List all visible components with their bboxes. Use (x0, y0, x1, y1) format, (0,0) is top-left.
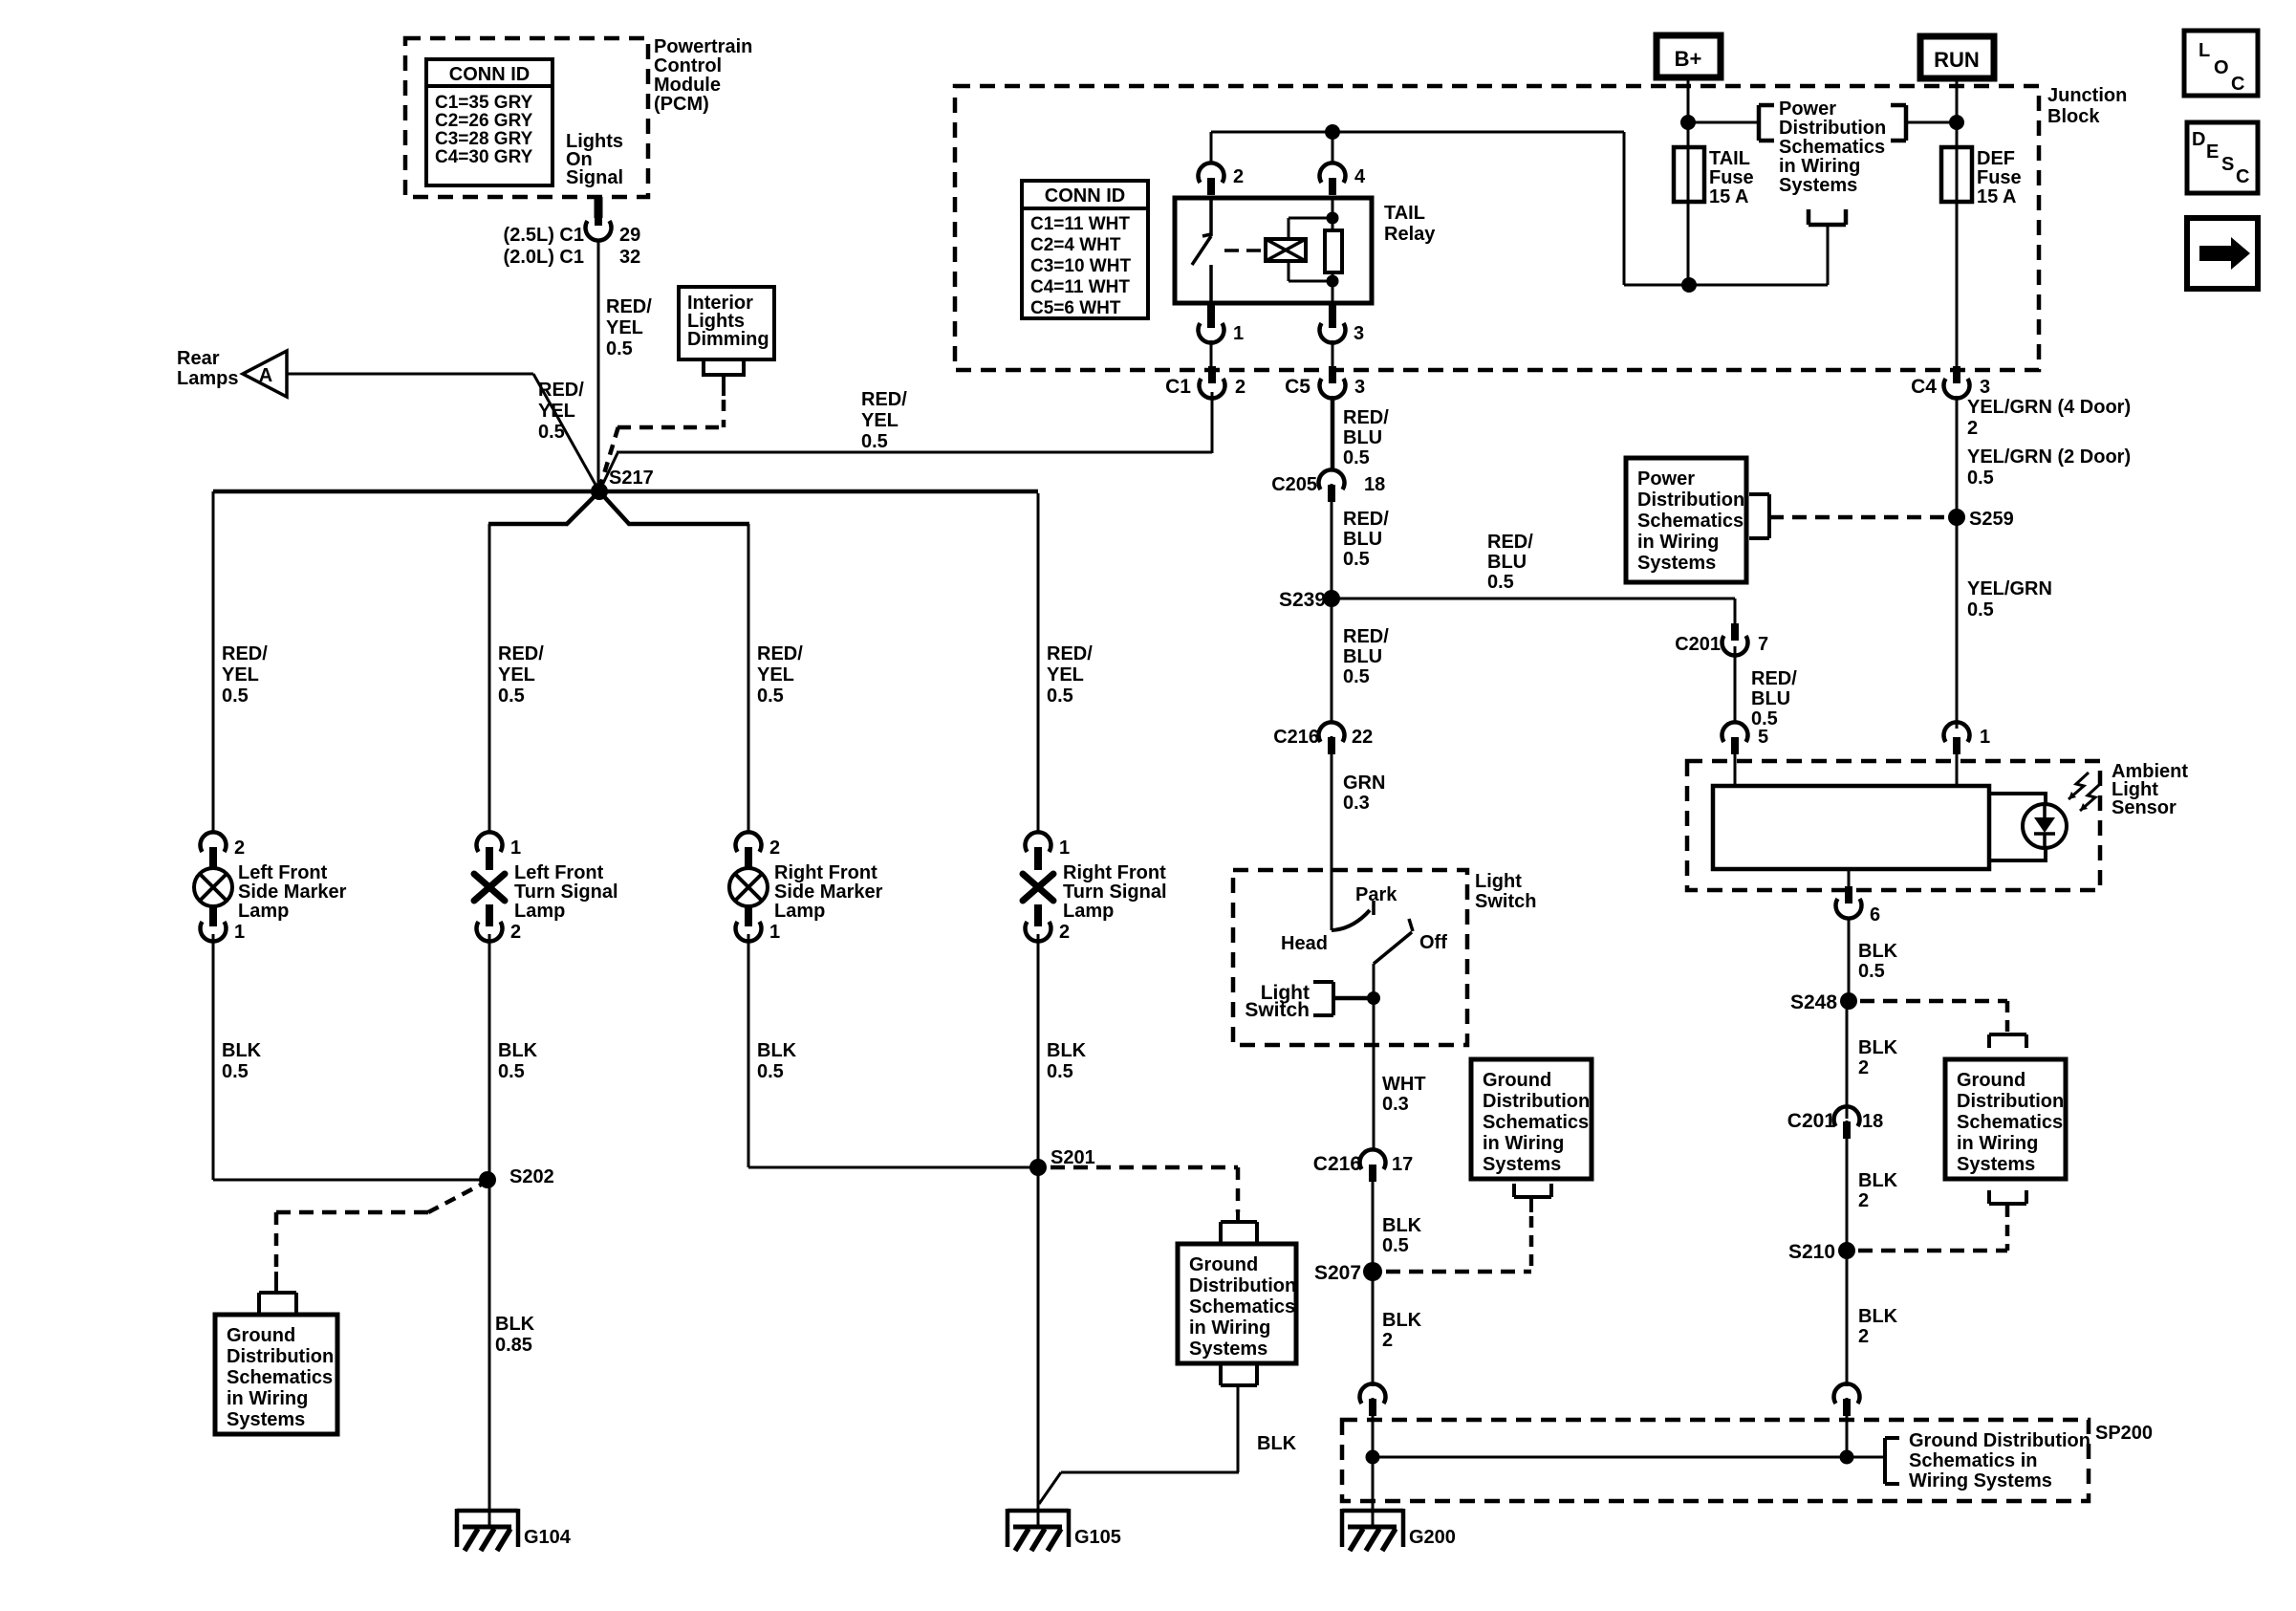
svg-text:3: 3 (1354, 377, 1365, 398)
svg-text:GRN: GRN (1343, 773, 1385, 794)
svg-text:B+: B+ (1675, 47, 1702, 71)
svg-text:0.5: 0.5 (1343, 447, 1370, 468)
svg-text:Signal: Signal (566, 167, 623, 188)
svg-text:BLK: BLK (1858, 1306, 1898, 1327)
svg-text:S202: S202 (509, 1166, 554, 1187)
svg-text:RED/: RED/ (606, 296, 652, 317)
svg-text:BLK: BLK (498, 1040, 538, 1061)
svg-text:TAIL: TAIL (1384, 203, 1425, 224)
svg-text:Control: Control (654, 55, 722, 76)
svg-text:Powertrain: Powertrain (654, 36, 752, 57)
svg-text:DEF: DEF (1977, 148, 2015, 169)
svg-text:2: 2 (510, 922, 521, 943)
svg-text:RED/: RED/ (757, 643, 803, 664)
svg-text:RED/: RED/ (1047, 643, 1093, 664)
svg-text:RED/: RED/ (1487, 532, 1533, 553)
svg-text:6: 6 (1870, 904, 1880, 925)
svg-text:Systems: Systems (1483, 1154, 1561, 1175)
svg-text:0.5: 0.5 (757, 1061, 784, 1082)
svg-text:3: 3 (1980, 377, 1990, 398)
svg-text:BLU: BLU (1343, 427, 1382, 448)
svg-text:2: 2 (1967, 418, 1978, 439)
svg-text:C4=30 GRY: C4=30 GRY (435, 147, 533, 167)
svg-text:0.5: 0.5 (538, 422, 565, 443)
svg-text:Ground: Ground (1483, 1070, 1551, 1091)
svg-text:RED/: RED/ (861, 389, 907, 410)
svg-text:22: 22 (1352, 727, 1373, 748)
svg-text:15 A: 15 A (1977, 186, 2017, 207)
svg-text:5: 5 (1758, 727, 1768, 748)
svg-text:2: 2 (769, 838, 780, 859)
svg-text:Block: Block (2047, 106, 2100, 127)
svg-text:SP200: SP200 (2095, 1423, 2153, 1444)
svg-text:0.5: 0.5 (498, 686, 525, 707)
svg-text:0.5: 0.5 (1967, 599, 1994, 620)
svg-text:BLK: BLK (222, 1040, 262, 1061)
svg-text:C2=26 GRY: C2=26 GRY (435, 111, 533, 131)
svg-text:0.5: 0.5 (1047, 686, 1073, 707)
svg-text:RED/: RED/ (1751, 668, 1797, 689)
svg-text:BLU: BLU (1751, 688, 1790, 709)
svg-text:in Wiring: in Wiring (1957, 1133, 2038, 1154)
svg-text:Schematics: Schematics (1779, 137, 1885, 158)
svg-text:YEL: YEL (606, 317, 643, 338)
svg-text:RED/: RED/ (498, 643, 544, 664)
svg-text:Turn Signal: Turn Signal (1063, 882, 1167, 903)
svg-text:YEL/GRN: YEL/GRN (1967, 578, 2052, 599)
svg-text:32: 32 (619, 247, 640, 268)
svg-text:Sensor: Sensor (2112, 797, 2177, 818)
svg-text:G200: G200 (1409, 1527, 1456, 1548)
svg-text:CONN ID: CONN ID (449, 64, 530, 85)
svg-text:S201: S201 (1051, 1147, 1095, 1168)
svg-text:0.5: 0.5 (498, 1061, 525, 1082)
svg-text:C4=11 WHT: C4=11 WHT (1030, 277, 1130, 297)
svg-text:2: 2 (1858, 1326, 1869, 1347)
svg-text:Systems: Systems (1957, 1154, 2035, 1175)
svg-text:Relay: Relay (1384, 224, 1436, 245)
svg-text:Left Front: Left Front (238, 862, 328, 883)
svg-text:0.3: 0.3 (1382, 1094, 1409, 1115)
svg-text:1: 1 (1233, 323, 1244, 344)
svg-text:Systems: Systems (1779, 175, 1857, 196)
svg-text:29: 29 (619, 225, 640, 246)
svg-text:Distribution: Distribution (227, 1346, 334, 1367)
svg-text:in Wiring: in Wiring (1637, 532, 1719, 553)
svg-text:Systems: Systems (227, 1409, 305, 1430)
svg-text:Turn Signal: Turn Signal (514, 882, 618, 903)
svg-text:C2=4 WHT: C2=4 WHT (1030, 235, 1121, 255)
svg-text:YEL/GRN (4 Door): YEL/GRN (4 Door) (1967, 397, 2131, 418)
svg-text:Rear: Rear (177, 348, 220, 369)
svg-text:Distribution: Distribution (1779, 118, 1886, 139)
svg-text:1: 1 (769, 922, 780, 943)
svg-text:Schematics: Schematics (1189, 1296, 1295, 1317)
svg-text:2: 2 (1858, 1057, 1869, 1078)
svg-text:C205: C205 (1271, 474, 1317, 495)
svg-text:Light: Light (1475, 871, 1522, 892)
svg-text:0.5: 0.5 (1382, 1235, 1409, 1256)
svg-text:in Wiring: in Wiring (227, 1388, 308, 1409)
svg-text:0.5: 0.5 (1343, 666, 1370, 687)
svg-text:18: 18 (1364, 474, 1385, 495)
svg-text:1: 1 (234, 922, 245, 943)
svg-text:YEL: YEL (1047, 664, 1084, 686)
svg-text:in Wiring: in Wiring (1483, 1133, 1564, 1154)
svg-text:Head: Head (1281, 933, 1328, 954)
svg-text:CONN ID: CONN ID (1045, 185, 1125, 207)
svg-text:2: 2 (1382, 1330, 1393, 1351)
svg-text:A: A (259, 365, 272, 386)
svg-text:Power: Power (1779, 98, 1836, 120)
svg-text:0.5: 0.5 (1487, 572, 1514, 593)
svg-text:C3=28 GRY: C3=28 GRY (435, 129, 533, 149)
svg-text:Fuse: Fuse (1709, 167, 1754, 188)
svg-text:BLU: BLU (1343, 646, 1382, 667)
svg-text:Switch: Switch (1245, 999, 1310, 1021)
svg-text:C: C (2236, 166, 2249, 187)
svg-text:C3=10 WHT: C3=10 WHT (1030, 256, 1131, 276)
svg-text:1: 1 (1059, 838, 1070, 859)
svg-text:0.5: 0.5 (1858, 961, 1885, 982)
svg-text:Schematics in: Schematics in (1909, 1450, 2038, 1471)
svg-text:Ground: Ground (1189, 1254, 1258, 1275)
svg-text:C1=35 GRY: C1=35 GRY (435, 93, 533, 113)
svg-text:0.5: 0.5 (1343, 549, 1370, 570)
svg-text:in Wiring: in Wiring (1189, 1317, 1270, 1339)
svg-text:C201: C201 (1787, 1110, 1836, 1132)
svg-text:S207: S207 (1314, 1262, 1361, 1284)
svg-text:(2.5L) C1: (2.5L) C1 (504, 225, 584, 246)
svg-text:RED/: RED/ (1343, 407, 1389, 428)
svg-text:S217: S217 (609, 468, 654, 489)
svg-text:2: 2 (1059, 922, 1070, 943)
svg-text:O: O (2214, 57, 2229, 78)
svg-text:2: 2 (1858, 1190, 1869, 1211)
svg-text:TAIL: TAIL (1709, 148, 1750, 169)
svg-text:BLK: BLK (1858, 1170, 1898, 1191)
svg-text:BLU: BLU (1487, 552, 1527, 573)
svg-text:Lamp: Lamp (238, 901, 289, 922)
svg-text:G104: G104 (524, 1527, 572, 1548)
svg-text:D: D (2192, 129, 2205, 150)
svg-text:Lamps: Lamps (177, 368, 238, 389)
svg-text:WHT: WHT (1382, 1074, 1426, 1095)
svg-text:YEL: YEL (222, 664, 259, 686)
svg-text:Right Front: Right Front (774, 862, 877, 883)
svg-text:18: 18 (1862, 1111, 1883, 1132)
svg-text:0.5: 0.5 (861, 431, 888, 452)
svg-text:Wiring Systems: Wiring Systems (1909, 1470, 2052, 1491)
svg-text:Ground: Ground (227, 1325, 295, 1346)
svg-text:BLK: BLK (1047, 1040, 1087, 1061)
svg-text:Lamp: Lamp (1063, 901, 1114, 922)
svg-text:BLK: BLK (1382, 1215, 1422, 1236)
svg-text:C: C (2231, 74, 2244, 95)
svg-text:2: 2 (234, 838, 245, 859)
svg-text:YEL: YEL (757, 664, 794, 686)
svg-text:7: 7 (1758, 634, 1768, 655)
svg-text:Distribution: Distribution (1637, 490, 1744, 511)
svg-text:Dimming: Dimming (687, 329, 769, 350)
svg-text:YEL: YEL (538, 401, 575, 422)
svg-text:in Wiring: in Wiring (1779, 156, 1860, 177)
svg-text:C216: C216 (1273, 727, 1319, 748)
svg-text:C1: C1 (1165, 376, 1191, 398)
svg-text:Junction: Junction (2047, 85, 2127, 106)
svg-text:Right Front: Right Front (1063, 862, 1166, 883)
svg-text:0.5: 0.5 (222, 1061, 249, 1082)
svg-text:Left Front: Left Front (514, 862, 604, 883)
svg-text:YEL: YEL (861, 410, 899, 431)
svg-text:(2.0L) C1: (2.0L) C1 (504, 247, 584, 268)
svg-text:1: 1 (1980, 727, 1990, 748)
svg-text:BLK: BLK (495, 1314, 535, 1335)
svg-text:Ground Distribution: Ground Distribution (1909, 1430, 2090, 1451)
svg-text:17: 17 (1392, 1154, 1413, 1175)
svg-text:BLK: BLK (1858, 941, 1898, 962)
svg-text:C201: C201 (1675, 634, 1721, 655)
svg-text:C4: C4 (1911, 376, 1937, 398)
svg-text:Park: Park (1355, 884, 1397, 905)
svg-text:C5: C5 (1285, 376, 1310, 398)
svg-text:Systems: Systems (1637, 553, 1716, 574)
svg-text:Side Marker: Side Marker (774, 882, 883, 903)
svg-text:Lamp: Lamp (514, 901, 565, 922)
svg-text:E: E (2206, 142, 2219, 163)
svg-text:Distribution: Distribution (1483, 1091, 1590, 1112)
svg-text:Side Marker: Side Marker (238, 882, 347, 903)
svg-text:RED/: RED/ (1343, 626, 1389, 647)
svg-text:0.5: 0.5 (222, 686, 249, 707)
svg-text:Schematics: Schematics (227, 1367, 333, 1388)
svg-text:S239: S239 (1279, 589, 1326, 611)
svg-text:G105: G105 (1074, 1527, 1121, 1548)
svg-text:0.85: 0.85 (495, 1335, 532, 1356)
svg-text:Ground: Ground (1957, 1070, 2025, 1091)
svg-text:Schematics: Schematics (1957, 1112, 2063, 1133)
svg-text:Systems: Systems (1189, 1339, 1267, 1360)
svg-text:S248: S248 (1790, 991, 1837, 1013)
svg-text:YEL: YEL (498, 664, 535, 686)
svg-text:Off: Off (1419, 932, 1447, 953)
svg-text:BLU: BLU (1343, 529, 1382, 550)
svg-text:Distribution: Distribution (1957, 1091, 2064, 1112)
svg-text:RUN: RUN (1934, 48, 1980, 72)
svg-text:2: 2 (1233, 166, 1244, 187)
svg-text:15 A: 15 A (1709, 186, 1749, 207)
svg-text:Switch: Switch (1475, 891, 1536, 912)
svg-text:S: S (2221, 154, 2234, 175)
svg-text:S259: S259 (1969, 509, 2014, 530)
svg-text:BLK: BLK (757, 1040, 797, 1061)
svg-text:4: 4 (1354, 166, 1366, 187)
svg-text:0.5: 0.5 (757, 686, 784, 707)
svg-text:BLK: BLK (1257, 1433, 1297, 1454)
svg-text:(PCM): (PCM) (654, 94, 709, 115)
svg-text:0.5: 0.5 (1967, 468, 1994, 489)
svg-text:0.5: 0.5 (1047, 1061, 1073, 1082)
svg-text:Lamp: Lamp (774, 901, 825, 922)
svg-text:2: 2 (1235, 377, 1245, 398)
svg-text:3: 3 (1354, 323, 1364, 344)
svg-text:C216: C216 (1313, 1153, 1361, 1175)
svg-text:C1=11 WHT: C1=11 WHT (1030, 214, 1130, 234)
svg-text:BLK: BLK (1858, 1037, 1898, 1058)
svg-text:Schematics: Schematics (1483, 1112, 1589, 1133)
svg-text:RED/: RED/ (222, 643, 268, 664)
svg-text:0.5: 0.5 (606, 338, 633, 359)
svg-text:Distribution: Distribution (1189, 1275, 1296, 1296)
svg-text:1: 1 (510, 838, 521, 859)
svg-text:RED/: RED/ (1343, 509, 1389, 530)
svg-text:Module: Module (654, 75, 721, 96)
svg-text:Fuse: Fuse (1977, 167, 2022, 188)
svg-text:YEL/GRN (2 Door): YEL/GRN (2 Door) (1967, 446, 2131, 468)
svg-text:Power: Power (1637, 468, 1695, 490)
svg-text:0.3: 0.3 (1343, 793, 1370, 814)
svg-text:S210: S210 (1788, 1241, 1835, 1263)
svg-text:BLK: BLK (1382, 1310, 1422, 1331)
svg-text:L: L (2199, 40, 2210, 61)
svg-text:C5=6 WHT: C5=6 WHT (1030, 298, 1121, 318)
svg-text:Schematics: Schematics (1637, 511, 1744, 532)
svg-text:RED/: RED/ (538, 380, 584, 401)
